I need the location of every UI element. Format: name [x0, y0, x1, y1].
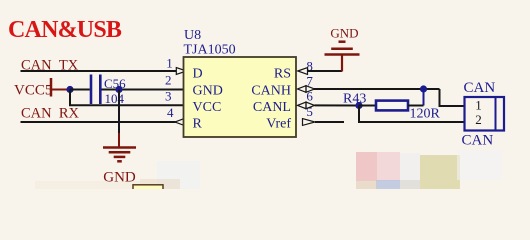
- svg-text:U8: U8: [184, 28, 201, 43]
- svg-text:D: D: [193, 66, 203, 81]
- svg-text:GND: GND: [193, 84, 223, 99]
- svg-text:Vref: Vref: [266, 117, 291, 132]
- wire capacitor to pin 2 GND: [102, 89, 184, 91]
- wire CANH junction down to resistor: [423, 89, 425, 106]
- wire CANL down to connector pin 2: [359, 106, 465, 123]
- connector CAN body: [465, 97, 505, 131]
- resistor R43: [376, 101, 408, 111]
- ground symbol lower left: [103, 148, 136, 162]
- pin 1 input arrow: [176, 68, 186, 75]
- pin 8 input arrow: [298, 68, 308, 75]
- node VCC5 junction: [66, 86, 73, 93]
- svg-text:104: 104: [105, 91, 125, 106]
- wire junction down to ground: [118, 90, 120, 134]
- pin 7 bidirectional arrow: [298, 86, 307, 93]
- ground symbol top right (flipped): [341, 54, 343, 72]
- svg-text:TJA1050: TJA1050: [184, 43, 236, 58]
- svg-text:R43: R43: [343, 92, 366, 107]
- svg-text:GND: GND: [103, 169, 136, 185]
- svg-text:2: 2: [165, 73, 172, 88]
- wire CANH down to connector pin 1: [440, 89, 465, 106]
- svg-text:CAN RX: CAN RX: [21, 106, 80, 122]
- svg-text:VCC: VCC: [193, 100, 222, 115]
- pin 6 bidirectional arrow: [298, 102, 307, 109]
- connector divider: [495, 97, 497, 131]
- capacitor C56 plates: [90, 75, 93, 105]
- node cap/gnd junction: [115, 86, 122, 93]
- svg-text:1: 1: [166, 55, 173, 70]
- svg-text:4: 4: [167, 105, 174, 120]
- svg-text:CAN: CAN: [462, 133, 494, 149]
- svg-text:CAN&USB: CAN&USB: [8, 17, 122, 43]
- wire pin 8 to ground: [307, 70, 342, 72]
- svg-text:RS: RS: [274, 66, 291, 81]
- wire pin 6 CANL: [315, 104, 360, 106]
- watermark blocks bottom left: [35, 161, 200, 189]
- svg-text:CANH: CANH: [251, 84, 291, 99]
- wire junction to capacitor: [70, 89, 90, 91]
- svg-text:120R: 120R: [410, 107, 441, 122]
- watermark blocks bottom right: [356, 150, 502, 189]
- svg-text:1: 1: [475, 98, 482, 113]
- node CANH junction: [420, 85, 427, 92]
- svg-text:CANL: CANL: [253, 100, 291, 115]
- wire VCC5 to junction: [52, 89, 70, 91]
- svg-text:GND: GND: [330, 26, 358, 41]
- wire pin 7 CANH: [314, 88, 440, 90]
- wire CAN TX to pin 1: [21, 70, 177, 72]
- wire pin 5 Vref stub: [315, 121, 344, 123]
- VCC5 port tick: [50, 78, 53, 97]
- partial component bottom edge: [133, 185, 163, 192]
- wire VCC5 to pin 3 (L shape): [70, 90, 184, 106]
- svg-text:R: R: [193, 117, 203, 132]
- wire CAN RX to pin 4: [21, 121, 176, 123]
- svg-text:VCC5: VCC5: [14, 83, 52, 99]
- IC U8 TJA1050 body: [184, 57, 297, 137]
- node CANL junction: [355, 102, 362, 109]
- wire resistor right to CANH: [408, 105, 424, 107]
- pin 5 output arrow: [303, 119, 316, 126]
- svg-text:2: 2: [475, 112, 482, 127]
- pin 4 output arrow: [175, 119, 184, 126]
- svg-text:CAN: CAN: [464, 80, 496, 96]
- wire CANL junction to resistor: [359, 105, 376, 107]
- svg-text:3: 3: [165, 89, 172, 104]
